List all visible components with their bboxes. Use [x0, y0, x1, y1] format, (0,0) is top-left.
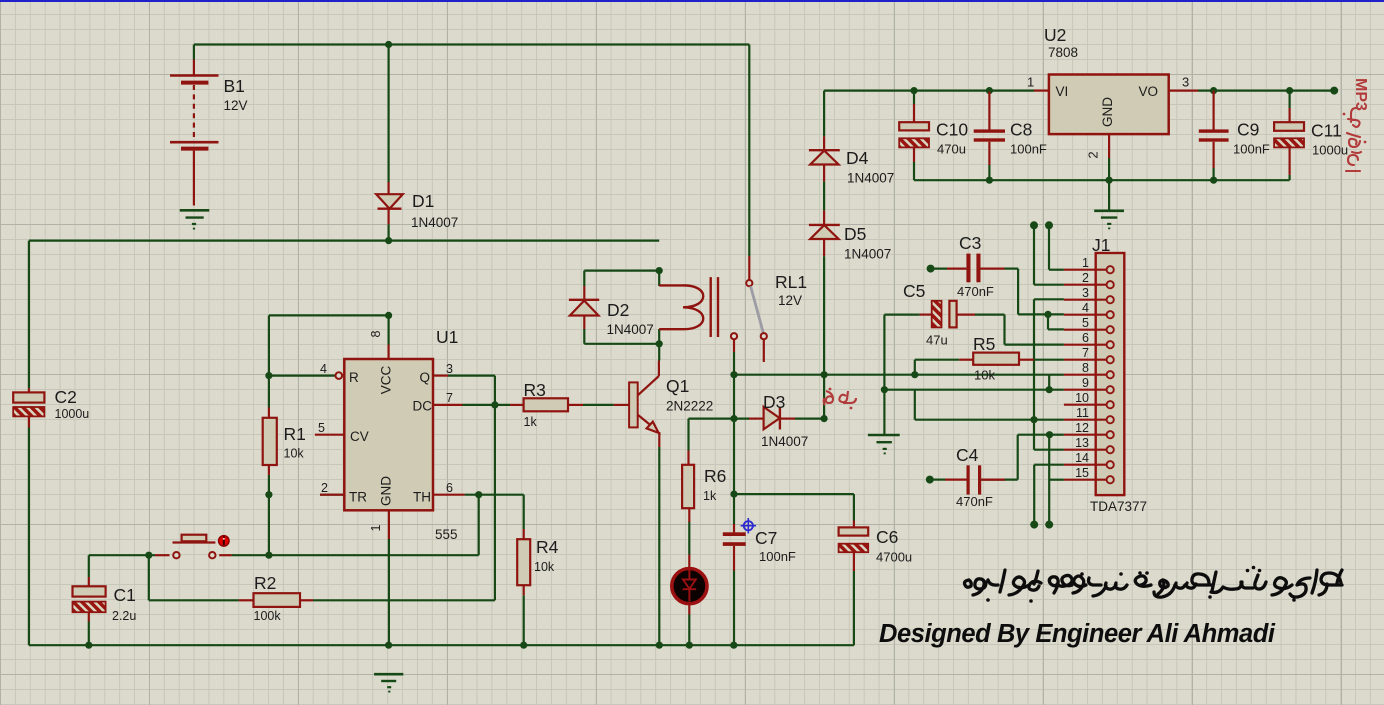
svg-text:GND: GND [379, 476, 394, 506]
svg-text:Q: Q [419, 370, 430, 385]
svg-text:3: 3 [1082, 286, 1089, 300]
svg-text:C9: C9 [1237, 120, 1259, 140]
svg-text:12: 12 [1075, 421, 1089, 435]
svg-text:7808: 7808 [1048, 45, 1078, 60]
svg-text:1N4007: 1N4007 [761, 434, 808, 449]
svg-text:RL1: RL1 [775, 272, 807, 292]
svg-text:11: 11 [1076, 406, 1089, 420]
svg-text:C7: C7 [755, 528, 777, 548]
svg-text:C2: C2 [55, 387, 77, 407]
svg-text:100nF: 100nF [759, 549, 796, 564]
svg-text:12V: 12V [778, 293, 802, 308]
svg-text:Designed By Engineer Ali Ahmad: Designed By Engineer Ali Ahmadi [879, 620, 1276, 648]
svg-text:10k: 10k [534, 560, 555, 574]
svg-text:TDA7377: TDA7377 [1090, 499, 1147, 514]
svg-text:TH: TH [413, 490, 431, 505]
svg-text:2: 2 [1086, 151, 1101, 158]
svg-text:R5: R5 [973, 334, 995, 354]
svg-text:1k: 1k [524, 415, 538, 429]
svg-text:C5: C5 [903, 281, 925, 301]
svg-text:555: 555 [435, 527, 458, 542]
svg-text:13: 13 [1075, 436, 1089, 450]
svg-text:GND: GND [1100, 97, 1115, 127]
svg-text:8: 8 [369, 330, 383, 337]
svg-text:R: R [349, 370, 359, 385]
svg-text:R4: R4 [536, 537, 559, 557]
svg-text:8: 8 [1082, 361, 1089, 375]
svg-text:15: 15 [1075, 466, 1089, 480]
svg-text:C10: C10 [936, 120, 968, 140]
svg-text:47u: 47u [926, 333, 948, 348]
svg-text:C8: C8 [1010, 120, 1032, 140]
svg-text:9: 9 [1082, 376, 1089, 390]
svg-text:5: 5 [1082, 316, 1089, 330]
svg-text:B1: B1 [224, 76, 245, 96]
svg-text:MP3: MP3 [1352, 78, 1369, 111]
svg-text:1000u: 1000u [55, 407, 90, 421]
svg-text:1: 1 [1027, 75, 1034, 90]
svg-text:1k: 1k [703, 489, 717, 503]
svg-text:2N2222: 2N2222 [666, 399, 713, 414]
svg-text:1000u: 1000u [1312, 143, 1348, 158]
svg-text:VCC: VCC [379, 366, 394, 395]
svg-text:Q1: Q1 [666, 376, 689, 396]
svg-text:2: 2 [321, 481, 328, 495]
svg-text:1N4007: 1N4007 [411, 215, 458, 230]
svg-text:100nF: 100nF [1010, 142, 1047, 157]
svg-text:2.2u: 2.2u [112, 609, 136, 623]
svg-text:10k: 10k [284, 447, 305, 461]
svg-text:CV: CV [350, 429, 369, 444]
svg-text:VI: VI [1056, 84, 1069, 99]
svg-text:1: 1 [1082, 256, 1089, 270]
svg-text:3: 3 [446, 362, 453, 376]
svg-text:470u: 470u [937, 142, 966, 157]
svg-text:1N4007: 1N4007 [607, 322, 654, 337]
svg-text:4: 4 [320, 362, 327, 376]
svg-text:TR: TR [349, 490, 367, 505]
svg-text:D4: D4 [846, 148, 869, 168]
svg-text:100k: 100k [254, 609, 282, 623]
svg-text:1N4007: 1N4007 [844, 247, 891, 262]
svg-text:D2: D2 [607, 300, 629, 320]
svg-text:2: 2 [1082, 271, 1089, 285]
svg-text:D1: D1 [412, 191, 434, 211]
svg-text:10k: 10k [974, 368, 995, 383]
svg-text:U1: U1 [436, 327, 458, 347]
svg-text:3: 3 [1182, 75, 1189, 90]
svg-text:D3: D3 [763, 392, 785, 412]
svg-text:10: 10 [1075, 391, 1089, 405]
svg-text:C4: C4 [956, 445, 979, 465]
svg-text:4: 4 [1082, 301, 1089, 315]
svg-text:5: 5 [318, 421, 325, 435]
svg-text:6: 6 [1082, 331, 1089, 345]
svg-text:VO: VO [1138, 84, 1158, 99]
svg-text:C11: C11 [1311, 121, 1342, 141]
svg-text:4700u: 4700u [876, 550, 912, 565]
svg-text:470nF: 470nF [957, 284, 994, 299]
svg-text:7: 7 [446, 391, 453, 405]
svg-text:R1: R1 [284, 424, 306, 444]
svg-text:R6: R6 [704, 466, 726, 486]
svg-text:14: 14 [1075, 451, 1089, 465]
svg-text:R3: R3 [524, 380, 546, 400]
svg-text:C3: C3 [959, 233, 981, 253]
svg-text:J1: J1 [1092, 235, 1110, 255]
svg-text:R2: R2 [254, 573, 276, 593]
svg-text:U2: U2 [1044, 25, 1066, 45]
svg-text:12V: 12V [224, 98, 248, 113]
svg-text:C1: C1 [114, 585, 136, 605]
svg-text:C6: C6 [876, 527, 898, 547]
svg-text:7: 7 [1082, 346, 1089, 360]
svg-text:1: 1 [369, 524, 383, 531]
svg-text:470nF: 470nF [956, 494, 993, 509]
svg-text:6: 6 [446, 481, 453, 495]
svg-text:DC: DC [413, 399, 433, 414]
svg-text:1N4007: 1N4007 [847, 171, 894, 186]
svg-text:100nF: 100nF [1233, 142, 1270, 157]
svg-text:D5: D5 [844, 224, 866, 244]
